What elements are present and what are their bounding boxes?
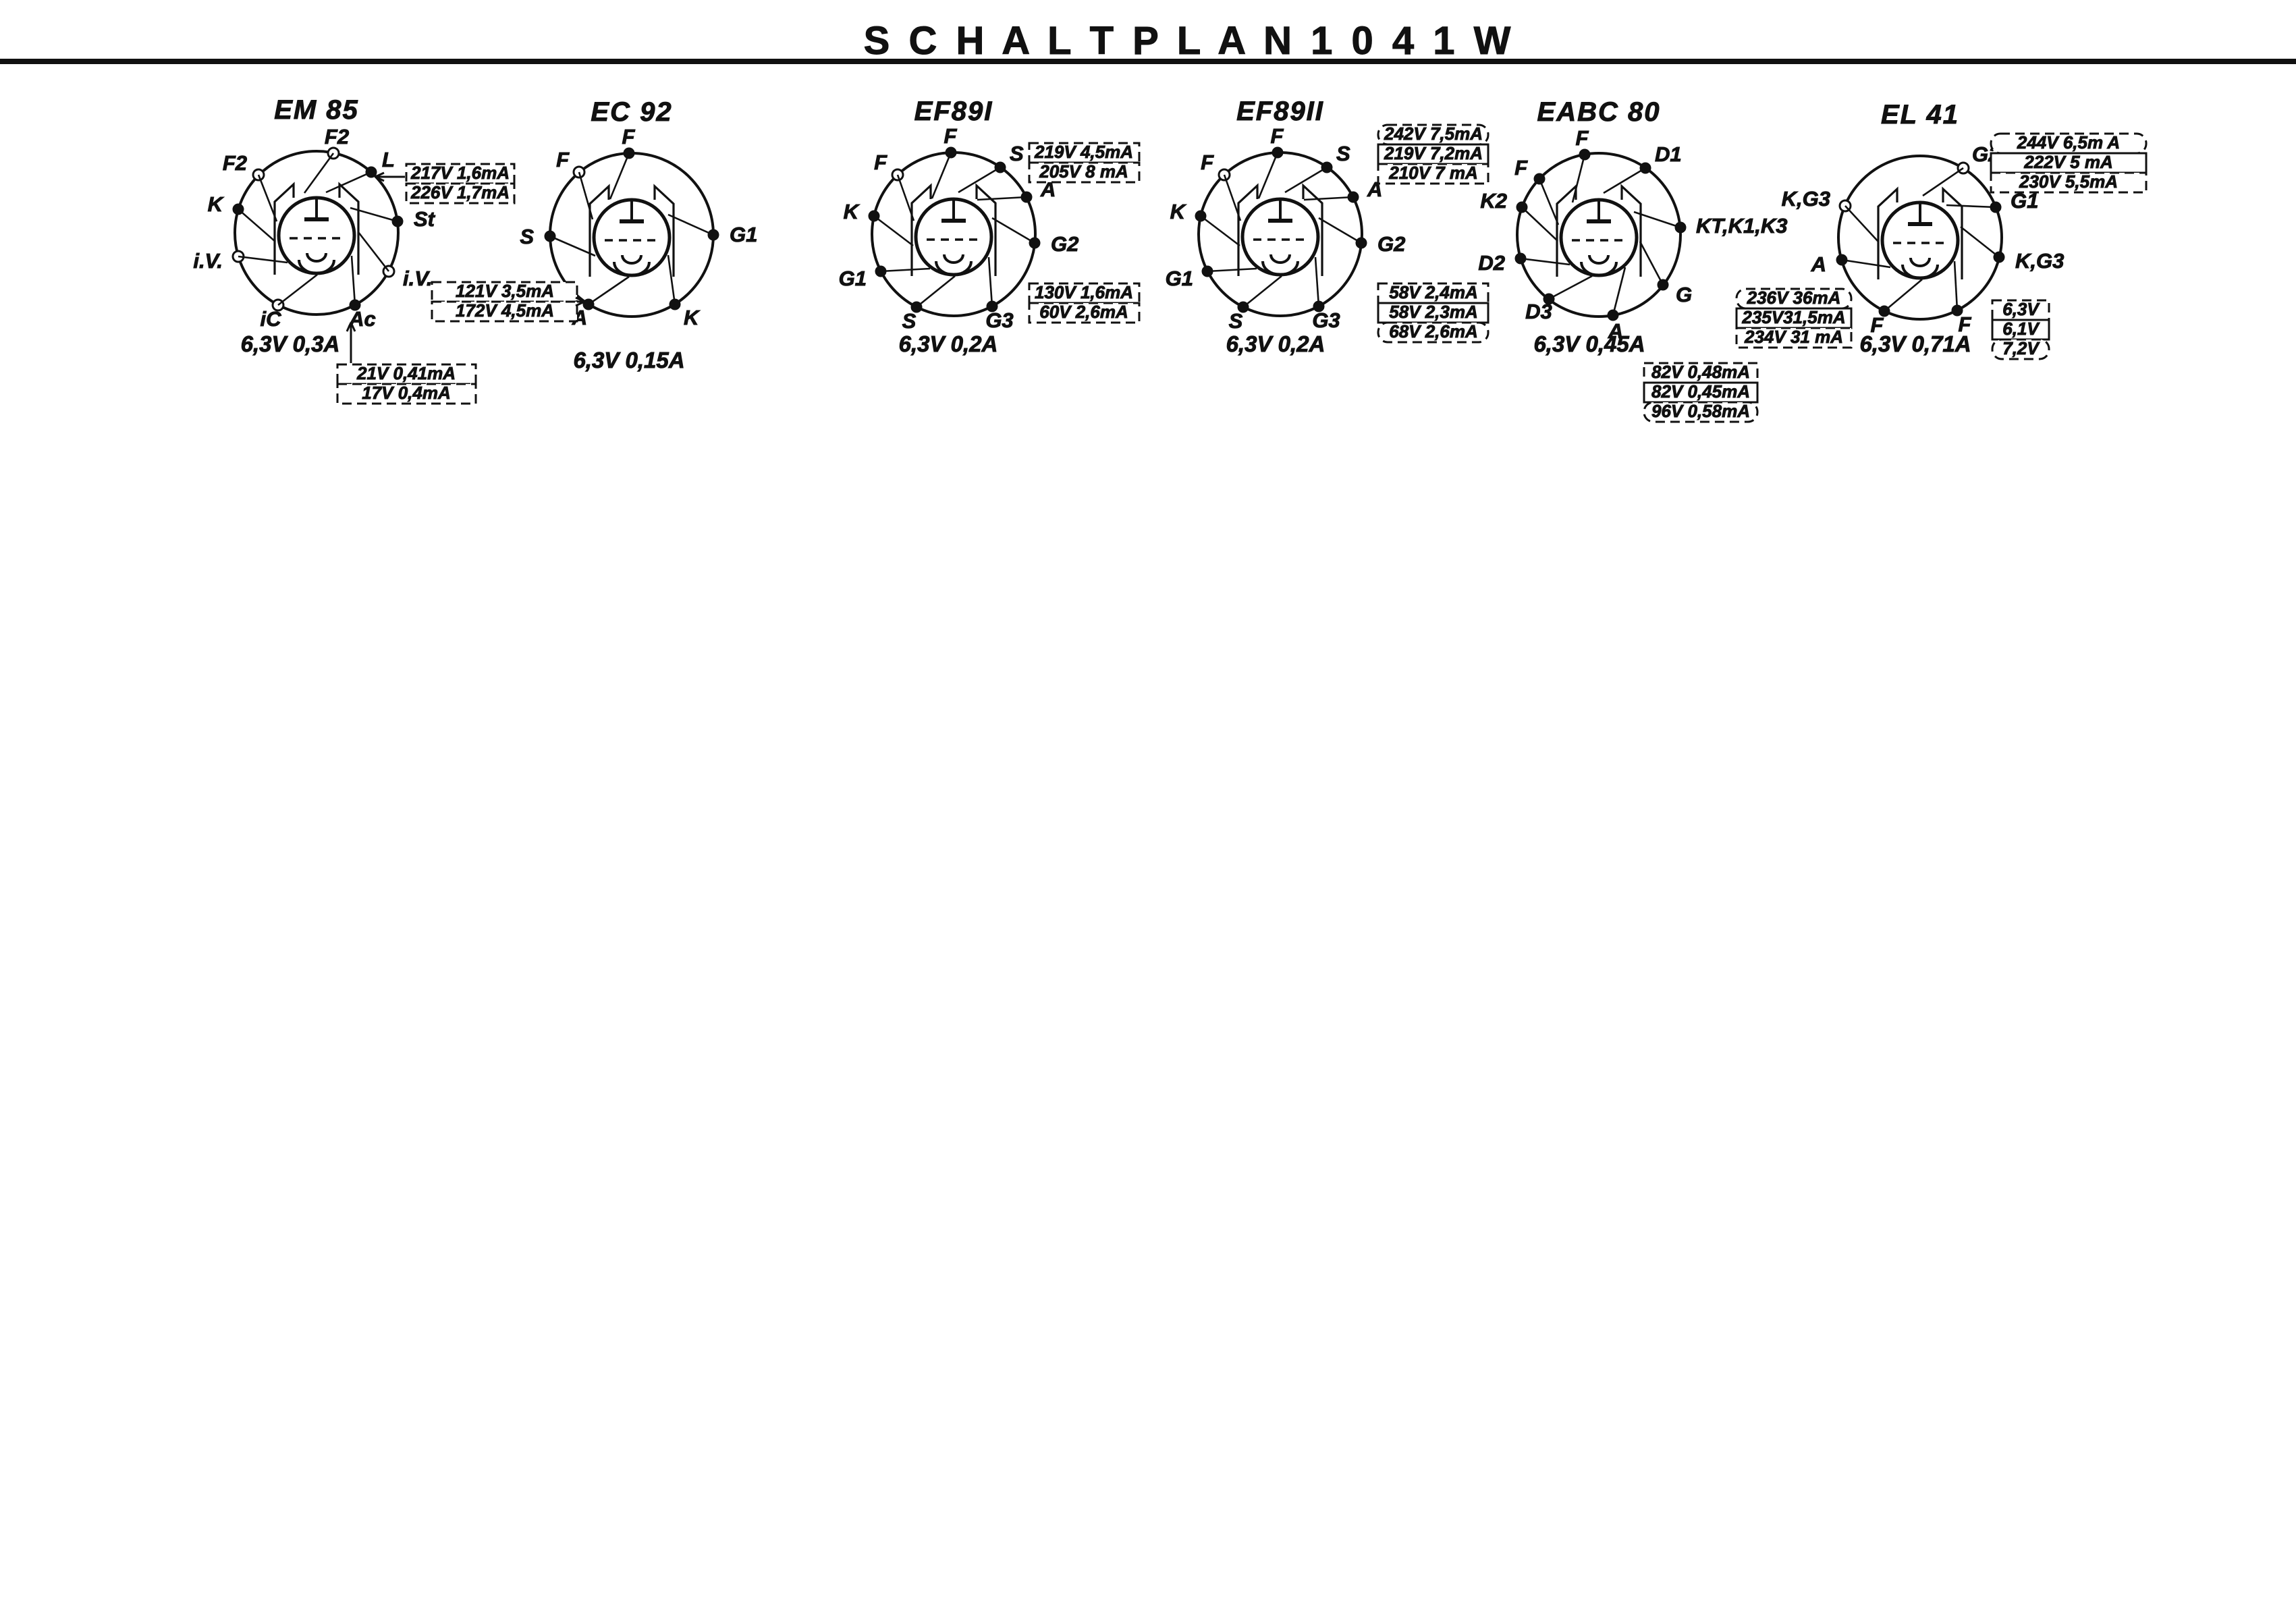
svg-text:F: F <box>622 125 636 148</box>
svg-text:D3: D3 <box>1525 300 1552 323</box>
svg-text:K2: K2 <box>1480 189 1507 213</box>
svg-text:K: K <box>1170 200 1187 223</box>
svg-text:i.V.: i.V. <box>193 249 223 273</box>
svg-text:205V 8 mA: 205V 8 mA <box>1039 161 1128 182</box>
svg-text:L: L <box>382 148 395 171</box>
svg-text:6,3V 0,15A: 6,3V 0,15A <box>573 348 684 373</box>
svg-text:EABC 80: EABC 80 <box>1537 97 1661 127</box>
svg-text:EF89II: EF89II <box>1236 97 1324 126</box>
svg-text:K: K <box>844 200 860 223</box>
svg-text:21V 0,41mA: 21V 0,41mA <box>356 363 456 383</box>
svg-text:234V 31 mA: 234V 31 mA <box>1744 327 1843 347</box>
svg-text:F: F <box>1271 124 1284 148</box>
svg-text:G1: G1 <box>839 267 867 290</box>
svg-text:6,1V: 6,1V <box>2002 319 2040 339</box>
svg-text:S C H A L T P L A N 1 0 4 1: S C H A L T P L A N 1 0 4 1 W <box>864 19 1515 63</box>
svg-text:6,3V 0,45A: 6,3V 0,45A <box>1533 331 1645 356</box>
svg-text:58V 2,4mA: 58V 2,4mA <box>1389 282 1478 302</box>
svg-text:172V 4,5mA: 172V 4,5mA <box>456 300 554 321</box>
svg-text:F2: F2 <box>223 151 247 175</box>
svg-text:6,3V 0,2A: 6,3V 0,2A <box>1226 331 1325 356</box>
svg-text:EL 41: EL 41 <box>1881 100 1959 130</box>
svg-text:KT,K1,K3: KT,K1,K3 <box>1696 214 1788 238</box>
svg-text:iC: iC <box>261 307 282 331</box>
svg-text:6,3V: 6,3V <box>2002 299 2040 319</box>
svg-text:96V 0,58mA: 96V 0,58mA <box>1651 401 1750 421</box>
svg-text:7,2V: 7,2V <box>2002 338 2040 358</box>
svg-text:F: F <box>1514 156 1528 180</box>
svg-text:6,3V 0,3A: 6,3V 0,3A <box>241 331 340 356</box>
svg-text:EF89I: EF89I <box>914 97 993 126</box>
svg-text:G3: G3 <box>1312 308 1340 332</box>
svg-text:226V 1,7mA: 226V 1,7mA <box>410 182 510 202</box>
svg-text:219V 7,2mA: 219V 7,2mA <box>1384 143 1483 163</box>
svg-text:217V 1,6mA: 217V 1,6mA <box>410 163 510 183</box>
svg-text:60V 2,6mA: 60V 2,6mA <box>1039 302 1128 322</box>
svg-text:G3: G3 <box>985 308 1013 332</box>
svg-text:242V 7,5mA: 242V 7,5mA <box>1384 124 1483 144</box>
svg-text:236V 36mA: 236V 36mA <box>1747 288 1841 308</box>
svg-text:S: S <box>902 309 917 333</box>
svg-text:G1: G1 <box>1166 267 1193 290</box>
svg-text:G2: G2 <box>1051 232 1078 256</box>
svg-text:219V 4,5mA: 219V 4,5mA <box>1034 142 1133 162</box>
svg-text:68V 2,6mA: 68V 2,6mA <box>1389 321 1478 342</box>
svg-text:235V31,5mA: 235V31,5mA <box>1741 307 1845 327</box>
svg-text:F: F <box>556 148 570 171</box>
svg-text:K: K <box>208 192 225 216</box>
svg-text:F: F <box>1201 151 1214 174</box>
svg-text:S: S <box>520 225 534 248</box>
svg-text:S: S <box>1229 309 1243 333</box>
svg-text:6,3V 0,2A: 6,3V 0,2A <box>899 331 998 356</box>
svg-text:230V 5,5mA: 230V 5,5mA <box>2019 171 2118 192</box>
svg-text:17V 0,4mA: 17V 0,4mA <box>362 383 451 403</box>
svg-text:K: K <box>684 306 701 329</box>
svg-text:A: A <box>1811 252 1826 276</box>
svg-text:6,3V 0,71A: 6,3V 0,71A <box>1859 331 1971 356</box>
svg-text:S: S <box>1336 142 1350 165</box>
svg-text:D1: D1 <box>1655 142 1682 166</box>
svg-text:82V 0,45mA: 82V 0,45mA <box>1651 381 1750 402</box>
svg-text:St: St <box>414 207 436 231</box>
svg-text:121V 3,5mA: 121V 3,5mA <box>456 281 554 301</box>
svg-text:58V 2,3mA: 58V 2,3mA <box>1389 302 1478 322</box>
svg-text:K,G3: K,G3 <box>2015 249 2064 273</box>
svg-text:F: F <box>944 124 958 148</box>
svg-text:S: S <box>1010 142 1024 165</box>
svg-text:i.V.: i.V. <box>403 267 433 290</box>
svg-text:G2: G2 <box>1377 232 1405 256</box>
svg-text:EM 85: EM 85 <box>274 95 359 125</box>
svg-text:82V 0,48mA: 82V 0,48mA <box>1651 362 1750 382</box>
svg-text:F2: F2 <box>325 125 349 148</box>
svg-text:130V 1,6mA: 130V 1,6mA <box>1035 282 1133 302</box>
svg-text:210V 7 mA: 210V 7 mA <box>1388 163 1478 183</box>
svg-text:G: G <box>1676 283 1692 306</box>
svg-text:244V 6,5m A: 244V 6,5m A <box>2017 132 2120 153</box>
svg-text:EC 92: EC 92 <box>591 97 672 127</box>
svg-text:G1: G1 <box>730 223 757 246</box>
svg-text:222V 5 mA: 222V 5 mA <box>2023 152 2113 172</box>
svg-text:K,G3: K,G3 <box>1782 187 1830 211</box>
svg-text:D2: D2 <box>1478 251 1505 275</box>
svg-text:F: F <box>874 151 887 174</box>
svg-text:F: F <box>1576 126 1589 150</box>
